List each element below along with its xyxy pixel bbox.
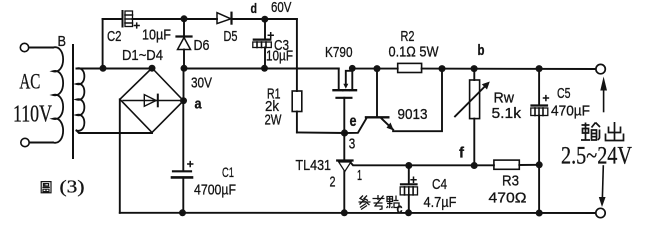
svg-text:(3): (3) — [60, 177, 85, 198]
wire top rail C2 to D6 — [133, 18, 218, 20]
wire rail R2 to output — [422, 68, 596, 70]
svg-text:K790: K790 — [325, 44, 353, 61]
wire up to C2 rail — [102, 19, 104, 68]
resistor R2 — [398, 63, 422, 72]
capacitor C2 (series electrolytic) — [122, 11, 124, 27]
label 圖(3) figure caption — [41, 182, 51, 193]
node junction 9013 emitter return — [439, 65, 446, 72]
AC input terminal top — [20, 43, 28, 51]
svg-text:2: 2 — [330, 174, 336, 191]
capacitor C1 — [182, 101, 184, 171]
potentiometer Rw — [473, 69, 475, 80]
node f junction Rw — [471, 162, 478, 169]
node junction D6 bottom — [181, 65, 188, 72]
svg-text:3: 3 — [349, 136, 356, 153]
transformer B secondary winding — [77, 68, 85, 131]
svg-text:C2: C2 — [107, 28, 122, 45]
svg-text:0.1Ω 5W: 0.1Ω 5W — [389, 44, 440, 61]
transformer B primary winding — [53, 47, 63, 143]
svg-text:470µF: 470µF — [551, 103, 590, 120]
svg-text:1: 1 — [357, 167, 362, 184]
node junction 9013 base — [374, 65, 381, 72]
node junction C2 branch — [100, 65, 107, 72]
wire secondary top to bridge — [77, 68, 153, 70]
svg-text:470Ω: 470Ω — [489, 190, 527, 207]
node junction TL431 anode ground — [341, 209, 348, 216]
node a (bridge + corner) — [180, 97, 187, 104]
label 參考點 (reference point) hand-drawn glyphs — [359, 195, 400, 210]
svg-text:D1~D4: D1~D4 — [122, 47, 163, 64]
capacitor C4 — [408, 166, 410, 185]
svg-text:TL431: TL431 — [296, 157, 332, 174]
node junction C1 ground — [179, 209, 186, 216]
svg-text:Rw: Rw — [494, 90, 515, 107]
svg-text:C1: C1 — [222, 164, 234, 180]
svg-text:B: B — [58, 33, 67, 50]
wire top rail d to corner — [265, 18, 297, 20]
node junction C5 top — [536, 65, 543, 72]
svg-text:C4: C4 — [432, 176, 447, 193]
svg-text:a: a — [195, 96, 203, 113]
node junction C5/R3 — [536, 161, 543, 168]
svg-text:4700µF: 4700µF — [194, 182, 236, 199]
svg-text:5.1k: 5.1k — [492, 105, 522, 122]
ground rail — [120, 212, 596, 214]
node junction bridge top — [149, 65, 156, 72]
node d — [261, 16, 268, 23]
wire top rail left of C2 — [103, 18, 123, 20]
svg-text:60V: 60V — [271, 0, 292, 16]
diode D5 — [217, 13, 231, 24]
svg-text:f: f — [459, 145, 465, 162]
svg-text:R3: R3 — [502, 173, 519, 190]
node b — [471, 65, 478, 72]
transformer core — [72, 45, 74, 158]
AC input terminal bottom — [21, 138, 29, 146]
node junction C4 top — [405, 162, 412, 169]
wire bridge + up to 30V rail — [183, 68, 185, 100]
capacitor C5 — [538, 69, 540, 105]
output terminal bottom — [596, 208, 605, 217]
wire — [29, 47, 53, 49]
output arrow up — [603, 90, 605, 112]
MOSFET K790 — [338, 69, 340, 90]
svg-text:9013: 9013 — [398, 106, 428, 123]
svg-text:10µF: 10µF — [142, 27, 171, 44]
svg-text:4.7µF: 4.7µF — [424, 194, 457, 211]
svg-text:d: d — [251, 0, 258, 16]
TL431 — [343, 133, 345, 160]
node junction C5 ground — [536, 210, 543, 217]
diode D6 — [183, 19, 185, 37]
svg-text:C5: C5 — [557, 85, 571, 102]
node e (gate node) — [341, 129, 348, 136]
resistor R3 — [494, 160, 519, 169]
svg-text:110V: 110V — [13, 102, 52, 128]
svg-text:D6: D6 — [194, 37, 210, 54]
wire reference line TL431 to R3 — [351, 163, 494, 165]
wire — [29, 142, 53, 144]
wire secondary bottom to bridge AC2 — [77, 131, 153, 134]
svg-text:b: b — [478, 42, 485, 59]
svg-text:D5: D5 — [224, 28, 238, 45]
svg-text:30V: 30V — [191, 75, 212, 92]
bridge rectifier D1~D4 — [120, 68, 184, 133]
node c junction ground — [405, 209, 412, 216]
node junction C3 bottom — [261, 65, 268, 72]
transistor Q1 9013 — [376, 69, 378, 117]
svg-text:R2: R2 — [401, 28, 415, 45]
svg-text:e: e — [350, 113, 357, 130]
resistor R1 — [292, 91, 302, 112]
wire 60V corner down to R1 — [296, 19, 298, 91]
svg-text:2W: 2W — [265, 112, 283, 129]
capacitor C3 — [264, 19, 266, 39]
output terminal top — [596, 64, 605, 73]
svg-text:2.5~24V: 2.5~24V — [561, 143, 632, 170]
wire rail K790 to R2 — [352, 68, 397, 70]
node junction D6 top — [181, 15, 188, 22]
label 輸出 (output) hand-drawn glyphs — [581, 122, 624, 141]
wire 30V rail — [184, 68, 339, 70]
svg-text:AC: AC — [19, 69, 40, 94]
output arrow down — [601, 166, 604, 198]
svg-text:10µF: 10µF — [266, 48, 293, 65]
node junction K790 source — [349, 65, 356, 72]
wire bridge - down to ground — [119, 99, 121, 213]
